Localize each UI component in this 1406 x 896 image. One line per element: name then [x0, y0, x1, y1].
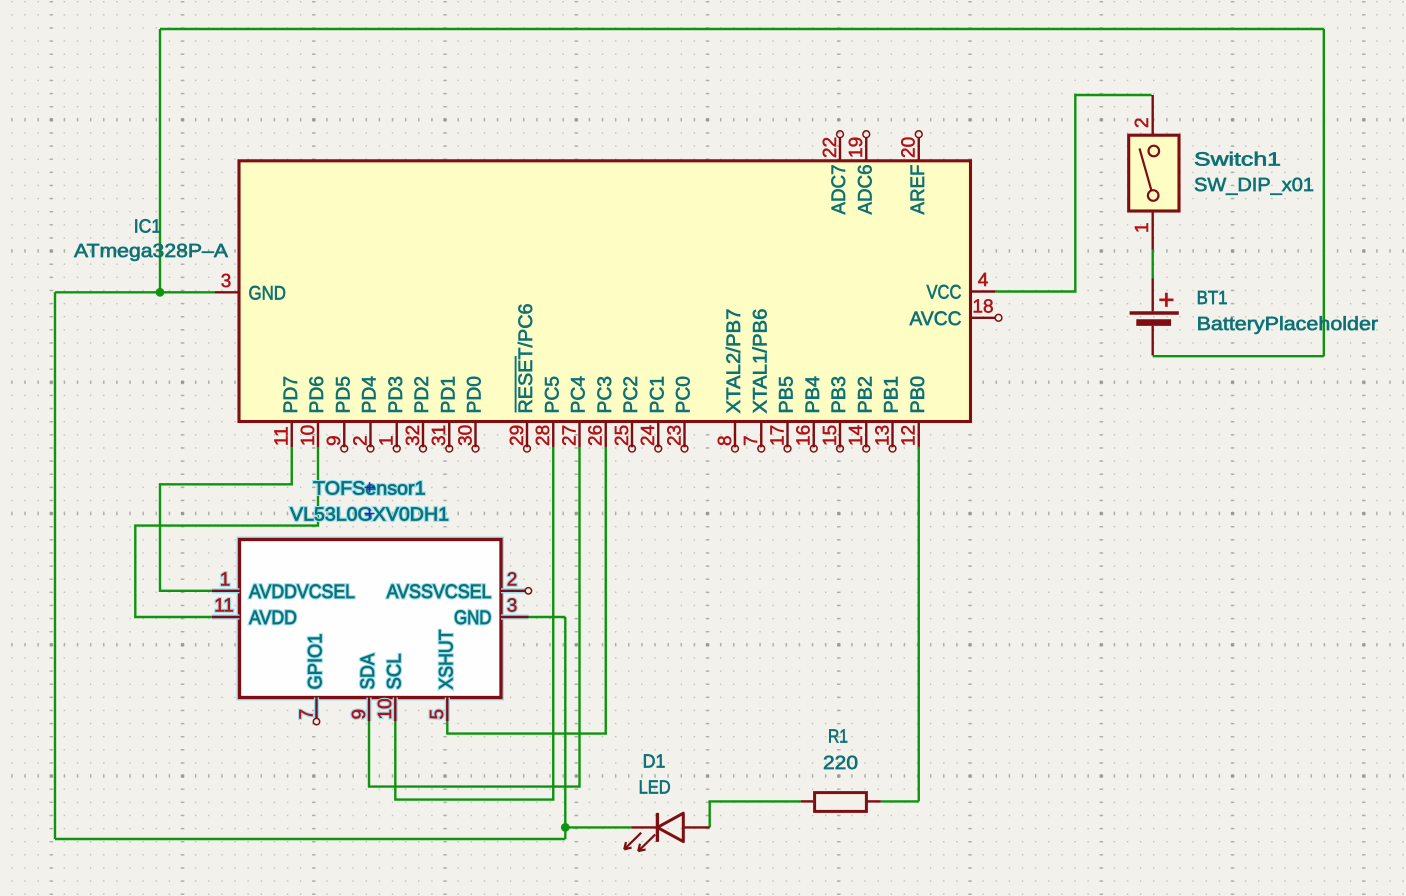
svg-text:2: 2: [507, 569, 518, 590]
pin 16 (PB4) of IC1, bottom edge: [794, 376, 824, 452]
svg-text:SDA: SDA: [357, 654, 379, 690]
pin 23 (PC0) of IC1, bottom edge: [664, 376, 694, 452]
svg-text:5: 5: [427, 709, 448, 720]
svg-text:PD7: PD7: [280, 376, 302, 414]
pin 11 (AVDD) of TOFSensor1, left edge: [212, 596, 297, 630]
label D1 reference: [643, 752, 666, 773]
svg-text:14: 14: [846, 424, 867, 446]
wire PD6 to TOF pin11: [135, 447, 318, 617]
pin 26 (PC3) of IC1, bottom edge: [586, 376, 616, 447]
svg-text:GPIO1: GPIO1: [305, 634, 327, 690]
svg-text:31: 31: [429, 425, 450, 446]
svg-text:1: 1: [377, 435, 398, 446]
svg-text:4: 4: [978, 270, 989, 291]
label BT1 reference: [1197, 288, 1228, 309]
svg-text:19: 19: [846, 137, 867, 158]
svg-text:LED: LED: [639, 778, 671, 799]
svg-text:9: 9: [349, 709, 370, 720]
pin 7 (XTAL1_PB6) of IC1, bottom edge: [741, 309, 771, 453]
svg-text:SW_DIP_x01: SW_DIP_x01: [1194, 175, 1314, 196]
svg-text:AVCC: AVCC: [910, 308, 962, 330]
label TOFSensor1 reference: [313, 479, 426, 500]
battery BT1 plus sign: [1159, 293, 1173, 307]
diode D1 LED triangle: [657, 813, 683, 841]
label ATmega328P-A value: [74, 241, 228, 262]
svg-text:PC2: PC2: [620, 376, 642, 414]
svg-text:2: 2: [1132, 117, 1153, 128]
svg-text:PD3: PD3: [385, 376, 407, 414]
svg-text:PB3: PB3: [828, 376, 850, 414]
svg-text:12: 12: [899, 425, 920, 446]
switch contact circle top: [1149, 146, 1160, 157]
pin 14 (PB2) of IC1, bottom edge: [846, 376, 876, 452]
wire PD7 to TOF pin1: [160, 447, 292, 591]
svg-text:AVSSVCSEL: AVSSVCSEL: [387, 581, 492, 603]
pin 29 (RESET_PC6) of IC1, bottom edge: [507, 304, 537, 453]
pin 3 (GND) of TOFSensor1, right edge: [454, 596, 529, 630]
svg-text:AREF: AREF: [907, 164, 929, 214]
svg-text:3: 3: [221, 271, 232, 292]
svg-text:3: 3: [507, 596, 518, 617]
pin 25 (PC2) of IC1, bottom edge: [612, 376, 642, 452]
switch SW1: Switch1 SW_DIP_x01 body: [1129, 135, 1179, 211]
svg-text:PD4: PD4: [359, 376, 381, 414]
resistor R1 left pin stub: [801, 800, 813, 802]
wire LED cathode to R1: [710, 801, 801, 827]
svg-text:1: 1: [220, 569, 231, 590]
pin 27 (PC4) of IC1, bottom edge: [559, 376, 589, 447]
svg-text:PC3: PC3: [594, 376, 616, 414]
svg-text:15: 15: [820, 425, 841, 446]
pin 24 (PC1) of IC1, bottom edge: [638, 376, 668, 452]
svg-text:ATmega328P–A: ATmega328P–A: [74, 241, 228, 262]
svg-text:RESET/PC6: RESET/PC6: [515, 304, 537, 414]
svg-text:GND: GND: [249, 282, 287, 304]
wire GND pin3 horizontal: [55, 291, 215, 293]
label SW_DIP_x01 value: [1194, 175, 1314, 196]
svg-text:28: 28: [533, 425, 554, 446]
svg-text:10: 10: [298, 425, 319, 446]
diode D1 LED cathode bar: [656, 813, 659, 842]
svg-text:PC1: PC1: [646, 376, 668, 414]
svg-text:IC1: IC1: [134, 217, 162, 238]
pin 8 (XTAL2_PB7) of IC1, bottom edge: [715, 309, 745, 453]
svg-text:VCC: VCC: [927, 282, 962, 304]
label LED value: [639, 778, 671, 799]
svg-text:7: 7: [741, 435, 762, 446]
wire PC4 to TOF SDA: [369, 447, 580, 786]
pin 20 (AREF) of IC1, top edge: [899, 131, 929, 215]
svg-text:7: 7: [296, 709, 317, 720]
svg-text:9: 9: [324, 435, 345, 446]
wire R1 to PB0: [881, 447, 919, 801]
switch contact circle bottom: [1148, 190, 1159, 201]
svg-text:10: 10: [375, 698, 396, 719]
wire left long vertical GND net: [54, 292, 56, 839]
svg-text:PB4: PB4: [802, 376, 824, 414]
pin 7 (GPIO1) of TOFSensor1, bottom edge: [296, 634, 326, 725]
svg-text:BT1: BT1: [1197, 288, 1228, 309]
wire battery minus horizontal: [1153, 355, 1324, 357]
wire LED anode wire: [565, 826, 631, 828]
svg-text:18: 18: [972, 297, 993, 318]
wire switch pin1 to battery plus: [1151, 250, 1153, 279]
svg-text:13: 13: [872, 425, 893, 446]
svg-text:SCL: SCL: [383, 653, 405, 689]
pin 15 (PB3) of IC1, bottom edge: [820, 376, 850, 452]
label 220 value: [823, 753, 858, 774]
svg-text:24: 24: [638, 424, 659, 446]
svg-text:30: 30: [455, 425, 476, 446]
svg-text:PB0: PB0: [907, 376, 929, 414]
svg-text:26: 26: [586, 425, 607, 446]
svg-text:16: 16: [794, 425, 815, 446]
svg-text:XTAL1/PB6: XTAL1/PB6: [749, 309, 771, 414]
pin 1 (PD3) of IC1, bottom edge: [377, 376, 407, 452]
svg-text:PC5: PC5: [541, 376, 563, 414]
junction GND net at IC pin3: [156, 288, 165, 297]
pin 1 (AVDDVCSEL) of TOFSensor1, left edge: [212, 569, 355, 603]
wire VCC top net: [160, 28, 1324, 30]
pin 9 (SDA) of TOFSensor1, bottom edge: [349, 654, 379, 722]
pin 18 (AVCC) of IC1, right edge: [910, 297, 1002, 330]
svg-text:25: 25: [612, 425, 633, 446]
svg-text:AVDD: AVDD: [249, 607, 297, 629]
svg-text:220: 220: [823, 753, 858, 774]
svg-text:PD2: PD2: [411, 376, 433, 414]
pin 30 (PD0) of IC1, bottom edge: [455, 376, 485, 452]
svg-text:17: 17: [767, 425, 788, 446]
svg-text:PB1: PB1: [881, 376, 903, 414]
svg-text:BatteryPlaceholder: BatteryPlaceholder: [1197, 314, 1379, 335]
svg-text:29: 29: [507, 425, 528, 446]
battery BT1 top plate (positive, long): [1130, 311, 1179, 314]
pin 3 (GND) of IC1, left edge: [215, 271, 286, 304]
IC U2: TOFSensor1 VL53L0GXV0DH1 body (selected, halo): [240, 540, 502, 698]
pin 5 (XSHUT) of TOFSensor1, bottom edge: [427, 629, 457, 721]
svg-text:PC0: PC0: [673, 376, 695, 414]
svg-text:PD5: PD5: [332, 376, 354, 414]
pin 12 (PB0) of IC1, bottom edge: [899, 376, 929, 447]
battery BT1 bottom pin: [1151, 326, 1153, 356]
svg-text:8: 8: [715, 435, 736, 446]
svg-text:GND: GND: [454, 607, 492, 629]
pin 2 (PD4) of IC1, bottom edge: [350, 376, 380, 452]
LED emission arrow 1: [624, 833, 641, 850]
svg-text:23: 23: [664, 425, 685, 446]
svg-text:XSHUT: XSHUT: [435, 629, 457, 689]
LED emission arrow 2: [638, 835, 655, 852]
pin 10 (SCL) of TOFSensor1, bottom edge: [375, 653, 405, 721]
label R1 reference: [828, 727, 848, 748]
switch lever: [1140, 148, 1152, 190]
svg-text:32: 32: [403, 425, 424, 446]
wire TOF GND pin3 stub wire: [529, 616, 566, 618]
pin 2 of Switch1, top: [1132, 95, 1153, 135]
pin 22 (ADC7) of IC1, top edge: [820, 131, 850, 215]
svg-text:D1: D1: [643, 752, 666, 773]
pin 1 of Switch1, bottom: [1132, 211, 1153, 250]
battery BT1 top pin: [1151, 279, 1153, 312]
pin 28 (PC5) of IC1, bottom edge: [533, 376, 563, 447]
svg-text:27: 27: [559, 425, 580, 446]
pin 19 (ADC6) of IC1, top edge: [846, 131, 876, 215]
svg-text:20: 20: [899, 137, 920, 158]
svg-text:Switch1: Switch1: [1194, 150, 1281, 171]
wire PC5 to TOF SCL: [395, 447, 553, 799]
diode D1 LED right pin stub: [683, 826, 709, 828]
svg-text:11: 11: [272, 426, 293, 446]
svg-text:PC4: PC4: [568, 376, 590, 414]
wire bottom long horizontal GND net: [55, 838, 565, 840]
pin 32 (PD2) of IC1, bottom edge: [403, 376, 433, 452]
junction GND net at LED anode: [561, 823, 570, 832]
svg-text:ADC6: ADC6: [854, 165, 876, 215]
pin 4 (VCC) of IC1, right edge: [927, 270, 996, 304]
pin 11 (PD7) of IC1, bottom edge: [272, 376, 302, 447]
svg-text:PD0: PD0: [464, 376, 486, 414]
label VL53L0GXV0DH1 value: [290, 505, 449, 526]
svg-text:22: 22: [820, 137, 841, 158]
svg-text:R1: R1: [828, 727, 848, 748]
wire VCC pin4 to switch pin2: [995, 95, 1152, 292]
IC U1: IC1 ATmega328P-A body: [239, 161, 971, 422]
battery BT1 bottom plate (negative, short thick): [1136, 319, 1171, 326]
resistor R1 body: [815, 793, 867, 812]
label Switch1 reference: [1194, 150, 1281, 171]
svg-text:PD1: PD1: [437, 376, 459, 414]
pin 2 (AVSSVCSEL) of TOFSensor1, right edge: [387, 569, 532, 603]
label BatteryPlaceholder value: [1197, 314, 1379, 335]
svg-text:AVDDVCSEL: AVDDVCSEL: [249, 581, 355, 603]
wire left vertical from top: [159, 29, 161, 292]
wire right vertical to battery minus: [1323, 29, 1325, 356]
pin 31 (PD1) of IC1, bottom edge: [429, 376, 459, 452]
svg-text:XTAL2/PB7: XTAL2/PB7: [723, 309, 745, 414]
svg-text:1: 1: [1132, 222, 1153, 233]
wire GND net vertical at x565: [564, 617, 566, 839]
pin 17 (PB5) of IC1, bottom edge: [767, 376, 797, 452]
svg-text:ADC7: ADC7: [828, 165, 850, 215]
svg-text:11: 11: [214, 596, 234, 617]
svg-text:PD6: PD6: [306, 376, 328, 414]
svg-text:2: 2: [350, 435, 371, 446]
diode D1 LED left pin stub: [631, 826, 656, 828]
svg-text:PB2: PB2: [854, 376, 876, 414]
pin 13 (PB1) of IC1, bottom edge: [872, 376, 902, 452]
pin 10 (PD6) of IC1, bottom edge: [298, 376, 328, 447]
label IC1 reference: [134, 217, 162, 238]
pin 9 (PD5) of IC1, bottom edge: [324, 376, 354, 452]
wire PC3 to TOF XSHUT: [447, 447, 605, 733]
svg-text:PB5: PB5: [776, 376, 798, 414]
resistor R1 right pin stub: [867, 800, 881, 802]
